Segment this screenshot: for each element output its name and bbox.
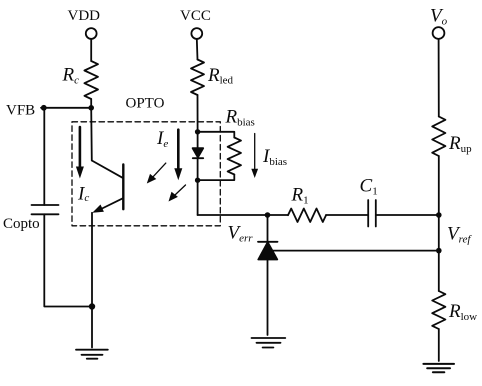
- terminal VCC: [191, 28, 202, 39]
- arrowhead light arrow 2: [169, 192, 178, 202]
- wire VDD to Rc: [90, 39, 92, 61]
- wire emitter rail to ground: [91, 307, 93, 348]
- wire Rbias bottom: [198, 175, 235, 181]
- ground GND3: [423, 363, 454, 365]
- svg-text:Copto: Copto: [3, 216, 40, 232]
- terminal VDD: [86, 28, 97, 39]
- capacitor C1 plates: [367, 200, 369, 227]
- wire Copto branch down: [43, 108, 45, 205]
- wire collector rail: [90, 108, 93, 161]
- node dot right rail Vref: [436, 248, 442, 254]
- arrowhead Ic: [76, 167, 84, 179]
- resistor R1: [288, 209, 326, 223]
- optocoupler dashed box: [72, 122, 220, 226]
- wire VFB: [41, 107, 91, 109]
- wire Rc to node: [90, 99, 92, 108]
- current arrow Ibias: [254, 134, 256, 171]
- wire R1 to C1: [326, 214, 368, 216]
- wire Vo to Rup: [438, 39, 440, 117]
- svg-text:Rup: Rup: [448, 133, 472, 155]
- node dot emitter/Copto: [89, 303, 95, 309]
- wire Rlow to ground: [438, 329, 440, 361]
- svg-text:Vref: Vref: [447, 224, 472, 246]
- svg-text:Rled: Rled: [207, 65, 234, 87]
- svg-text:C1: C1: [360, 176, 378, 198]
- resistor Rlow: [432, 291, 445, 329]
- wire Vref node to Rlow: [438, 251, 440, 291]
- svg-text:Verr: Verr: [228, 222, 254, 244]
- svg-text:Rlow: Rlow: [448, 301, 477, 323]
- wire LED node to Verr line: [197, 180, 199, 215]
- svg-text:Rbias: Rbias: [225, 107, 255, 129]
- wire node to LED: [197, 132, 199, 149]
- svg-text:Ibias: Ibias: [262, 146, 287, 168]
- svg-text:R1: R1: [291, 185, 309, 207]
- current arrow Ie: [177, 130, 180, 170]
- wire emitter rail: [91, 213, 93, 307]
- node dot LED bottom: [195, 178, 200, 183]
- arrowhead emitter: [92, 205, 104, 213]
- svg-text:Ie: Ie: [156, 128, 168, 150]
- TL431 body U1: [258, 242, 277, 259]
- svg-text:Rc: Rc: [62, 65, 80, 87]
- arrowhead Ibias: [251, 169, 258, 178]
- current arrow Ic: [79, 127, 82, 168]
- svg-text:Vo: Vo: [430, 6, 448, 28]
- node dot VFB/Copto: [41, 105, 47, 111]
- wire Rled to node: [197, 95, 199, 132]
- node dot right rail upper: [436, 212, 442, 218]
- svg-text:VDD: VDD: [68, 8, 101, 24]
- wire Rup to Vref node: [438, 156, 440, 251]
- wire Verr horizontal: [198, 214, 288, 216]
- svg-text:Ic: Ic: [77, 184, 89, 205]
- wire Verr node to TL431: [267, 215, 269, 242]
- resistor Rbias: [228, 138, 241, 175]
- node dot Rc/VFB: [88, 105, 94, 111]
- light arrow 2: [172, 185, 186, 198]
- resistor Rup: [432, 117, 445, 157]
- transistor Q1 base bar: [122, 165, 124, 210]
- transistor Q1 collector: [92, 161, 124, 179]
- wire LED to node: [197, 158, 199, 180]
- wire VCC to Rled: [196, 39, 199, 60]
- resistor Rled: [191, 60, 204, 96]
- arrowhead Ie: [174, 168, 182, 180]
- svg-text:VCC: VCC: [180, 8, 211, 24]
- node dot LED top: [195, 129, 200, 134]
- resistor Rbias loop wires: [198, 132, 235, 138]
- ground GND2: [252, 337, 286, 339]
- wire TL431 ref to Vref: [271, 250, 439, 252]
- svg-text:VFB: VFB: [6, 103, 35, 119]
- ground GND1: [76, 349, 108, 351]
- TL431 cathode bar: [258, 241, 278, 243]
- terminal Vo: [433, 27, 445, 39]
- wire TL431 anode down: [267, 260, 269, 336]
- wire Copto to bottom: [44, 214, 92, 306]
- node dot Verr: [265, 212, 271, 218]
- diode LED D1: [193, 148, 204, 157]
- light arrow 1: [151, 163, 166, 180]
- transistor Q1 emitter: [99, 198, 123, 210]
- svg-text:OPTO: OPTO: [126, 96, 165, 112]
- arrowhead light arrow 1: [147, 174, 157, 184]
- resistor Rc: [84, 61, 98, 99]
- capacitor Copto plates: [32, 204, 59, 206]
- wire C1 to right rail: [376, 214, 439, 216]
